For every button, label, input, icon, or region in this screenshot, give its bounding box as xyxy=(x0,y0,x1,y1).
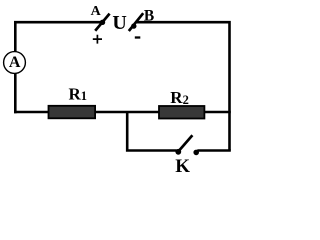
svg-text:B: B xyxy=(144,7,154,24)
resistor R2 xyxy=(159,106,204,119)
switch K right contact dot xyxy=(193,150,199,156)
svg-text:U: U xyxy=(112,12,126,34)
terminal B probe lever xyxy=(129,13,143,31)
minus sign xyxy=(135,36,141,38)
plus sign xyxy=(93,35,102,44)
terminal A probe dot xyxy=(100,20,105,25)
terminal A probe lever xyxy=(95,14,109,31)
switch K left contact dot xyxy=(175,149,181,155)
svg-text:A: A xyxy=(91,4,102,19)
wire top-right horizontal and right vertical xyxy=(136,22,230,150)
wire switch right lead xyxy=(197,149,231,152)
wire branch vertical and switch left lead xyxy=(127,111,177,151)
wire top-left horizontal and upper left vertical xyxy=(15,22,101,52)
terminal B probe dot xyxy=(131,23,136,28)
wire lower left vertical xyxy=(14,73,17,113)
resistor R1 xyxy=(49,106,96,119)
wire bottom horizontal xyxy=(14,111,231,114)
svg-text:K: K xyxy=(175,156,190,177)
ammeter A xyxy=(4,52,26,74)
switch K lever xyxy=(179,135,193,151)
svg-text:A: A xyxy=(9,54,21,71)
